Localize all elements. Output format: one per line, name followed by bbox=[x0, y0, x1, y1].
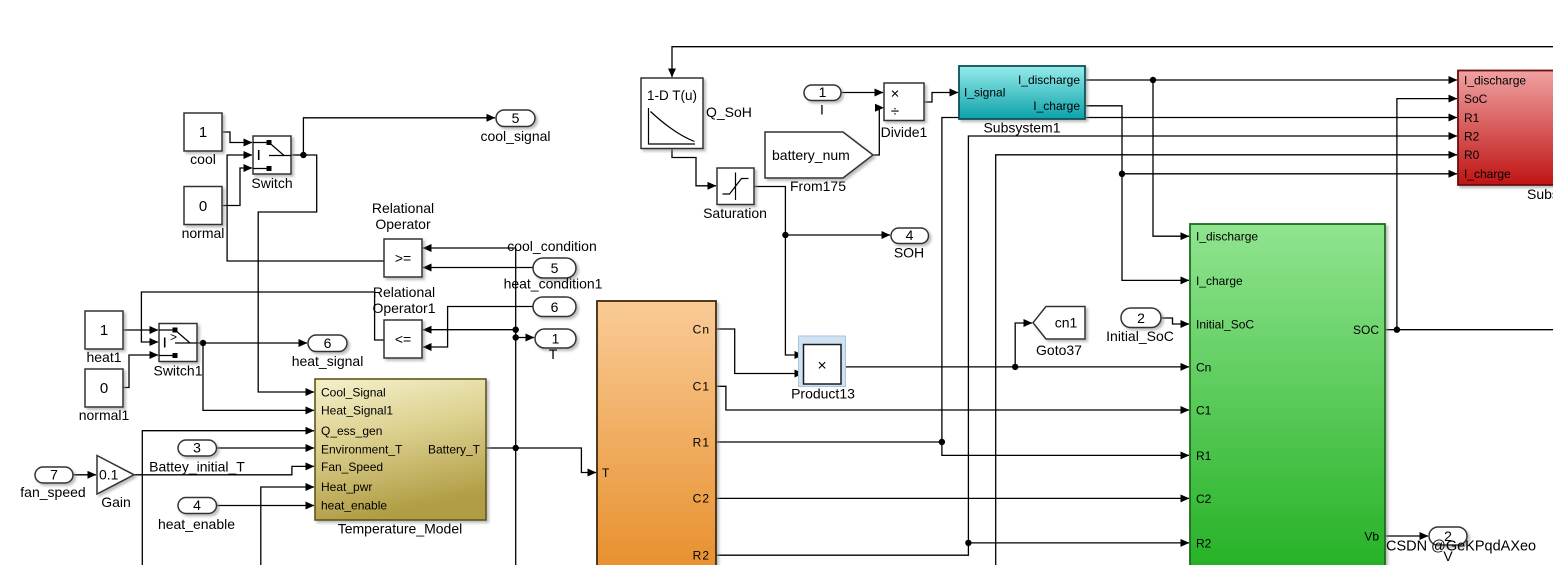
wire Battery_T vertical trunk bbox=[515, 248, 517, 565]
wire orange R2 output up to junction bbox=[716, 543, 968, 555]
wire Battery_T to T input of orange subsystem bbox=[516, 448, 596, 473]
svg-text:1: 1 bbox=[819, 84, 827, 100]
svg-text:6: 6 bbox=[324, 335, 332, 351]
wire fan_speed port7 to Gain bbox=[73, 474, 96, 476]
wire Saturation branch down to Product13 upper input bbox=[785, 235, 803, 355]
svg-text:Product13: Product13 bbox=[791, 386, 855, 402]
svg-text:Heat_Signal1: Heat_Signal1 bbox=[321, 404, 393, 418]
wire port2 Initial_SoC to green Initial_SoC bbox=[1161, 318, 1189, 324]
svg-text:×: × bbox=[891, 86, 900, 103]
relational operator <= bbox=[372, 284, 435, 358]
goto tag Goto37 cn1 bbox=[1033, 307, 1085, 359]
wire Saturation output down to SOH port bbox=[754, 187, 890, 236]
svg-text:heat_signal: heat_signal bbox=[292, 353, 364, 369]
svg-text:T: T bbox=[549, 346, 558, 362]
svg-text:4: 4 bbox=[906, 227, 914, 243]
svg-text:cool: cool bbox=[190, 151, 216, 167]
svg-text:I_charge: I_charge bbox=[1196, 274, 1243, 288]
port 4 SOH bbox=[891, 227, 929, 261]
svg-text:4: 4 bbox=[193, 497, 201, 513]
wire Battery_T to relational <= upper input bbox=[423, 329, 516, 331]
svg-text:R1: R1 bbox=[1196, 449, 1212, 463]
svg-text:From175: From175 bbox=[790, 178, 846, 194]
svg-text:Battey_initial_T: Battey_initial_T bbox=[149, 459, 245, 475]
wire const normal to Switch input3 bbox=[222, 168, 252, 206]
wire junction down to Cool_Signal input of Temperature_Model bbox=[258, 155, 317, 392]
svg-text:×: × bbox=[817, 358, 826, 375]
svg-text:R2: R2 bbox=[693, 549, 710, 563]
switch block Switch1 bbox=[153, 324, 202, 379]
constant block 0 (normal) bbox=[182, 187, 225, 242]
wire orange C2 output to green C2 input bbox=[716, 497, 1189, 499]
svg-text:C2: C2 bbox=[1196, 492, 1212, 506]
svg-text:Switch: Switch bbox=[251, 175, 292, 191]
svg-text:Vb: Vb bbox=[1364, 530, 1379, 544]
svg-text:Heat_pwr: Heat_pwr bbox=[321, 480, 372, 494]
svg-text:Cn: Cn bbox=[1196, 360, 1211, 374]
svg-text:Operator: Operator bbox=[375, 216, 431, 232]
wire green SOC output to right edge bbox=[1385, 329, 1553, 331]
wire R2 junction to green R2 input bbox=[968, 542, 1189, 544]
wire orange R1 output to junction bbox=[716, 441, 942, 443]
wire Switch1 output to heat_signal port bbox=[197, 342, 307, 344]
wire green Vb output to port2 V bbox=[1385, 535, 1428, 537]
svg-text:I_charge: I_charge bbox=[1464, 167, 1511, 181]
lookup table block Q_SoH bbox=[641, 78, 752, 149]
svg-text:cool_signal: cool_signal bbox=[480, 128, 550, 144]
svg-text:1: 1 bbox=[100, 322, 108, 339]
svg-text:R2: R2 bbox=[1196, 536, 1212, 550]
svg-text:Subsystem1: Subsystem1 bbox=[983, 120, 1060, 136]
svg-text:6: 6 bbox=[551, 299, 559, 315]
svg-text:0: 0 bbox=[100, 380, 108, 397]
wire const cool to Switch input1 bbox=[222, 132, 252, 143]
svg-text:SOC: SOC bbox=[1353, 323, 1379, 337]
wire normal1 to Switch1 input3 bbox=[123, 355, 158, 388]
svg-text:normal1: normal1 bbox=[79, 407, 130, 423]
svg-text:2: 2 bbox=[1137, 310, 1145, 326]
svg-text:I_discharge: I_discharge bbox=[1018, 73, 1080, 87]
svg-text:Gain: Gain bbox=[101, 494, 131, 510]
wire port4 to heat_enable input bbox=[217, 505, 315, 507]
svg-text:I_discharge: I_discharge bbox=[1464, 73, 1526, 87]
wire Gain output to Fan_Speed input bbox=[134, 466, 314, 474]
wire port6 to relational <= lower input bbox=[423, 307, 533, 348]
svg-text:SOH: SOH bbox=[894, 245, 924, 261]
svg-text:R1: R1 bbox=[693, 435, 710, 449]
svg-text:Q_ess_gen: Q_ess_gen bbox=[321, 424, 382, 438]
svg-text:battery_num: battery_num bbox=[772, 147, 850, 163]
svg-text:cn1: cn1 bbox=[1055, 315, 1078, 331]
svg-text:>: > bbox=[170, 330, 177, 344]
svg-text:Goto37: Goto37 bbox=[1036, 342, 1082, 358]
wire orange C1 output to green C1 input bbox=[716, 386, 1189, 410]
svg-text:I_signal: I_signal bbox=[964, 86, 1005, 100]
wire heat1 to Switch1 input1 bbox=[123, 329, 158, 331]
svg-text:Relational: Relational bbox=[373, 284, 435, 300]
wire SOC junction up to red SoC input bbox=[1397, 99, 1457, 330]
svg-text:>=: >= bbox=[395, 250, 411, 266]
svg-text:Fan_Speed: Fan_Speed bbox=[321, 460, 383, 474]
svg-text:1-D T(u): 1-D T(u) bbox=[647, 88, 697, 103]
svg-text:0: 0 bbox=[199, 198, 207, 215]
wire Subsystem1 I_charge down trunk bbox=[1085, 106, 1189, 281]
svg-text:Environment_T: Environment_T bbox=[321, 443, 403, 457]
svg-text:R0: R0 bbox=[1464, 148, 1480, 162]
subsystem green (SOC model) bbox=[1190, 224, 1385, 565]
wire junction up to cool_signal port bbox=[303, 118, 495, 155]
svg-text:C2: C2 bbox=[693, 492, 710, 506]
from tag battery_num From175 bbox=[765, 132, 873, 194]
port 2 V bbox=[1429, 527, 1467, 564]
wire orange Cn output to Product13 lower input bbox=[716, 329, 803, 374]
wire I_discharge junction down to green I_discharge bbox=[1153, 80, 1189, 236]
gain block Gain 0.1 bbox=[97, 456, 134, 511]
svg-text:heat_enable: heat_enable bbox=[158, 516, 235, 532]
svg-text:÷: ÷ bbox=[891, 103, 899, 120]
port 2 Initial_SoC bbox=[1106, 308, 1174, 344]
wire Divide1 output to Subsystem1 I_signal bbox=[924, 93, 958, 103]
divide block Divide1 bbox=[881, 83, 928, 140]
svg-text:<=: <= bbox=[395, 331, 411, 347]
port 6 bbox=[533, 297, 576, 317]
port 5 heat_condition1 bbox=[504, 258, 603, 292]
port 5 cool_signal bbox=[480, 110, 550, 144]
svg-text:Battery_T: Battery_T bbox=[428, 443, 481, 457]
wire R0 from bottom edge to red R0 input bbox=[996, 155, 1457, 565]
saturation block bbox=[703, 168, 767, 221]
svg-text:Cool_Signal: Cool_Signal bbox=[321, 386, 386, 400]
svg-text:7: 7 bbox=[50, 467, 58, 483]
wire Heat_pwr from bottom edge bbox=[261, 487, 314, 565]
svg-text:Initial_SoC: Initial_SoC bbox=[1196, 318, 1254, 332]
port 1 I bbox=[804, 84, 841, 118]
subsystem orange (battery params) bbox=[597, 301, 716, 565]
svg-text:I_charge: I_charge bbox=[1033, 99, 1080, 113]
svg-text:I_discharge: I_discharge bbox=[1196, 230, 1258, 244]
wire Q_SoH output to Saturation bbox=[672, 149, 716, 186]
svg-text:Temperature_Model: Temperature_Model bbox=[338, 521, 463, 537]
wire From175 tag to Divide1 lower input bbox=[873, 108, 879, 155]
port 4 heat_enable bbox=[158, 497, 235, 532]
wire branch up to Goto37 bbox=[1015, 323, 1032, 367]
constant block 1 (heat1) bbox=[85, 311, 123, 365]
wire R1 junction down to green R1 input bbox=[942, 442, 1189, 455]
svg-text:3: 3 bbox=[193, 440, 201, 456]
wire relational >= output to Switch control input bbox=[227, 155, 384, 261]
subsystem red (right edge) bbox=[1458, 71, 1553, 203]
svg-text:normal: normal bbox=[182, 225, 225, 241]
svg-text:fan_speed: fan_speed bbox=[20, 484, 85, 500]
port 6 heat_signal bbox=[292, 335, 364, 369]
wire Switch1 junction down to Heat_Signal1 input bbox=[203, 343, 314, 410]
subsystem Temperature_Model bbox=[315, 379, 486, 537]
svg-text:Saturation: Saturation bbox=[703, 205, 767, 221]
switch block Switch bbox=[251, 136, 292, 191]
wire R2 junction up to red R2 input bbox=[968, 136, 1457, 543]
svg-text:heat_enable: heat_enable bbox=[321, 499, 387, 513]
subsystem Subsystem1 (cyan) bbox=[959, 66, 1085, 136]
wire port1 I to Divide1 upper input bbox=[841, 92, 883, 94]
port 3 bbox=[178, 440, 217, 457]
wire Battery_T to port1 T bbox=[516, 337, 534, 339]
wire Q_ess_gen from bottom edge bbox=[142, 431, 314, 565]
svg-text:heat_condition1: heat_condition1 bbox=[504, 276, 603, 292]
wire R1 junction up to red R1 input bbox=[942, 118, 1457, 443]
port 7 fan_speed bbox=[20, 467, 85, 501]
svg-text:T: T bbox=[602, 466, 610, 480]
svg-text:cool_condition: cool_condition bbox=[507, 238, 597, 254]
wire Product13 output to green Cn input bbox=[845, 366, 1189, 368]
relational operator >= bbox=[372, 200, 434, 277]
constant block 1 (cool) bbox=[184, 113, 222, 167]
svg-text:Divide1: Divide1 bbox=[881, 124, 928, 140]
svg-text:5: 5 bbox=[512, 110, 520, 126]
wire Battery_T output to junction bbox=[486, 447, 516, 449]
svg-text:0.1: 0.1 bbox=[99, 467, 119, 483]
svg-text:C1: C1 bbox=[693, 380, 710, 394]
wire relational <= output to Switch1 control input bbox=[141, 292, 384, 342]
svg-text:5: 5 bbox=[551, 260, 559, 276]
wire port5 to relational >= lower input bbox=[423, 267, 533, 269]
svg-text:Switch1: Switch1 bbox=[153, 363, 202, 379]
svg-text:heat1: heat1 bbox=[86, 349, 121, 365]
svg-text:Cn: Cn bbox=[693, 322, 710, 336]
svg-text:Relational: Relational bbox=[372, 200, 434, 216]
svg-text:1: 1 bbox=[552, 331, 560, 347]
product block Product13 (selected) bbox=[791, 336, 855, 402]
wire Subsystem1 I_discharge to red I_discharge bbox=[1085, 79, 1457, 81]
wire top feed into Q_SoH lookup bbox=[672, 47, 1553, 77]
svg-text:Subs: Subs bbox=[1527, 186, 1553, 202]
svg-text:I: I bbox=[820, 102, 824, 118]
svg-text:Q_SoH: Q_SoH bbox=[706, 104, 752, 120]
port 1 T bbox=[535, 329, 576, 362]
wire I_charge junction to red I_charge bbox=[1122, 173, 1457, 175]
wire port3 to Environment_T input bbox=[217, 447, 315, 449]
svg-text:SoC: SoC bbox=[1464, 92, 1488, 106]
svg-text:Initial_SoC: Initial_SoC bbox=[1106, 328, 1174, 344]
svg-text:C1: C1 bbox=[1196, 404, 1212, 418]
svg-text:CSDN @GeKPqdAXeo: CSDN @GeKPqdAXeo bbox=[1386, 539, 1536, 555]
svg-text:1: 1 bbox=[199, 124, 207, 141]
wire Battery_T to relational >= upper input bbox=[423, 247, 516, 249]
constant block 0 (normal1) bbox=[79, 369, 130, 423]
wire Switch output to junction bbox=[291, 154, 303, 156]
svg-text:Operator1: Operator1 bbox=[372, 300, 435, 316]
svg-text:R2: R2 bbox=[1464, 129, 1480, 143]
svg-text:R1: R1 bbox=[1464, 111, 1480, 125]
